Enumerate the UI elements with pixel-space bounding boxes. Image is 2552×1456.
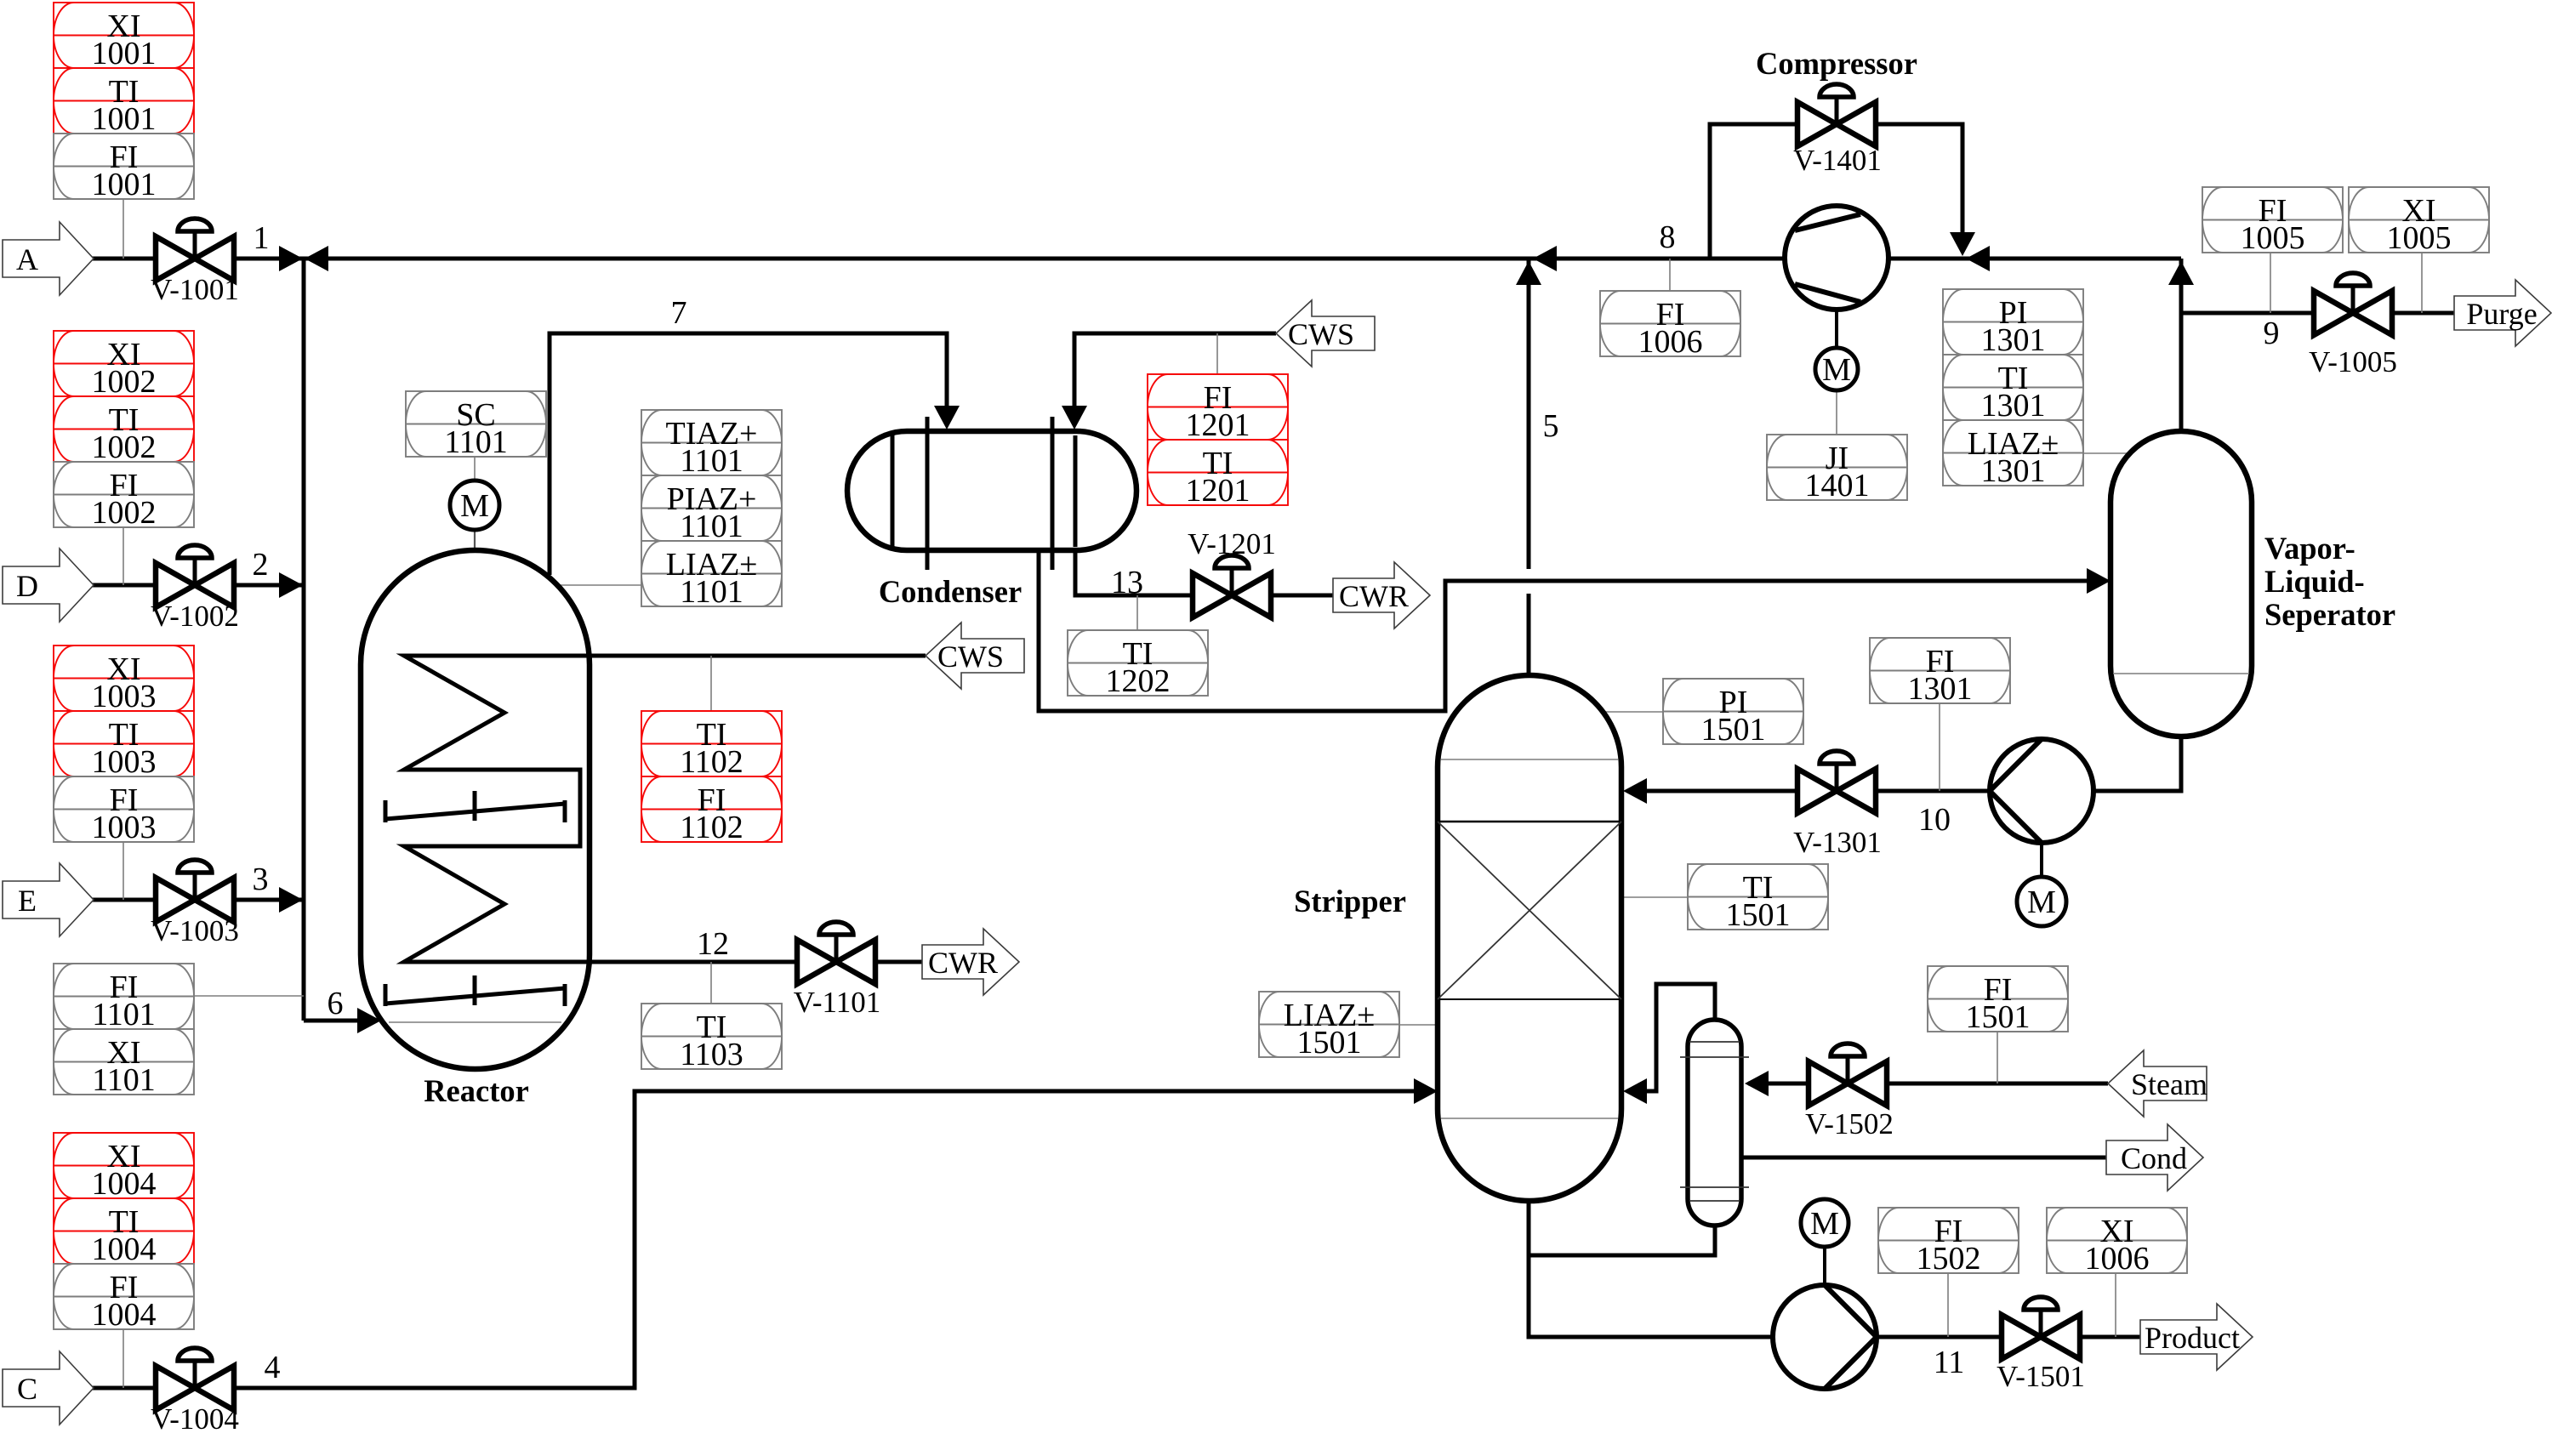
wire product pump to motor <box>1823 1247 1826 1285</box>
condenser vessel <box>847 431 1136 550</box>
svg-text:1003: 1003 <box>92 679 157 714</box>
instrument TI 1103 <box>641 1004 782 1072</box>
instrument XI 1003 <box>54 646 194 714</box>
svg-text:13: 13 <box>1111 565 1143 600</box>
stripper packing <box>1438 822 1621 999</box>
instrument FI 1006 <box>1600 291 1740 360</box>
instrument LIAZ± 1301 <box>1943 420 2083 489</box>
svg-text:1101: 1101 <box>680 509 743 544</box>
wire condenser liquid outlet to separator <box>1039 549 2094 711</box>
wire connector XI1005 to purge line <box>2421 253 2423 313</box>
wire reactor agitator shaft <box>474 529 476 626</box>
condenser left cap line <box>891 433 895 549</box>
valve V-1401 <box>1797 84 1876 146</box>
reboiler top tube sheet <box>1680 1056 1749 1058</box>
wire separator bottom to pump <box>2095 733 2181 791</box>
stripper vessel <box>1438 675 1621 1201</box>
instrument FI 1201 <box>1148 374 1288 443</box>
arrow steam into reboiler <box>1745 1071 1769 1096</box>
svg-text:Steam: Steam <box>2131 1067 2207 1101</box>
wire feed header vertical <box>302 259 306 1021</box>
svg-text:1006: 1006 <box>2085 1241 2150 1277</box>
valve V-1301 <box>1797 751 1876 813</box>
svg-text:1001: 1001 <box>92 167 157 202</box>
svg-text:1005: 1005 <box>2241 220 2305 256</box>
svg-text:5: 5 <box>1543 408 1559 444</box>
valve V-1004 <box>156 1348 234 1410</box>
instrument FI 1004 <box>54 1264 194 1333</box>
wire connector compressor M to JI1401 <box>1836 390 1837 435</box>
svg-text:V-1301: V-1301 <box>1793 826 1882 859</box>
wire connector FI1501 to steam line <box>1997 1032 1998 1083</box>
reactor upper agitator paddle <box>385 791 565 822</box>
wire connector LIAZ1301 to separator <box>2082 452 2132 454</box>
svg-text:1101: 1101 <box>92 1062 156 1098</box>
svg-text:1004: 1004 <box>92 1297 157 1333</box>
wire connector stack1004 to line C <box>122 1329 124 1388</box>
arrow bypass down into main line <box>1950 232 1975 256</box>
valve V-1005 <box>2314 273 2392 335</box>
valve V-1501 <box>2002 1297 2080 1359</box>
svg-text:Stripper: Stripper <box>1294 884 1406 919</box>
wire feed D line 2 <box>91 583 304 588</box>
separator level line <box>2113 673 2249 674</box>
wire feed C line 4 <box>91 1091 1431 1388</box>
stripper bottom level line <box>1441 1118 1618 1119</box>
svg-text:M: M <box>460 488 489 524</box>
reactor lower agitator paddle <box>385 975 565 1006</box>
svg-text:C: C <box>17 1372 37 1406</box>
svg-text:1501: 1501 <box>1701 712 1766 748</box>
svg-text:1502: 1502 <box>1917 1241 1981 1277</box>
wire connector PI1501 to stripper <box>1599 711 1663 713</box>
condenser right tube sheet <box>1051 417 1055 570</box>
instrument PI 1301 <box>1943 289 2083 358</box>
instrument LIAZ± 1101 <box>641 541 782 610</box>
arrow recycle on main line at bypass junction <box>1966 246 1990 271</box>
reactor liquid level line <box>389 1021 561 1023</box>
arrow line 4 into stripper <box>1414 1078 1438 1104</box>
wire connector stack1002 to line D <box>122 527 124 585</box>
svg-text:1002: 1002 <box>92 495 157 531</box>
instrument FI 1002 <box>54 462 194 531</box>
wire connector FI1006 to main line <box>1669 259 1671 291</box>
Steam arrow <box>2108 1050 2207 1117</box>
svg-text:1301: 1301 <box>1981 322 2046 358</box>
svg-text:E: E <box>18 884 37 918</box>
svg-text:1201: 1201 <box>1186 407 1250 443</box>
wire reboiler vapor return loop <box>1628 984 1715 1091</box>
svg-text:8: 8 <box>1660 219 1676 255</box>
valve V-1003 <box>156 860 234 922</box>
wire compressor to motor <box>1835 310 1838 349</box>
wire separator vapor riser line 8-9 <box>2179 259 2184 435</box>
svg-text:1501: 1501 <box>1297 1025 1362 1061</box>
wire connector SC1101 to motor <box>474 457 476 481</box>
svg-text:1201: 1201 <box>1186 473 1250 509</box>
svg-text:V-1101: V-1101 <box>794 986 880 1019</box>
svg-text:CWS: CWS <box>1288 317 1354 351</box>
svg-text:A: A <box>16 242 38 276</box>
svg-text:Cond: Cond <box>2121 1141 2187 1175</box>
instrument XI 1006 <box>2047 1208 2187 1277</box>
svg-text:Seperator: Seperator <box>2264 597 2395 632</box>
wire recycle pump to motor <box>2040 843 2043 877</box>
instrument FI 1501 <box>1928 966 2068 1035</box>
instrument TI 1201 <box>1148 440 1288 509</box>
valve V-1502 <box>1809 1044 1887 1106</box>
svg-text:6: 6 <box>328 986 344 1021</box>
wire product line 11 <box>1878 1335 2147 1339</box>
wire line 10 to stripper <box>1628 789 1988 793</box>
svg-text:1102: 1102 <box>680 744 743 780</box>
wire connector FI1301 to line 10 <box>1939 703 1940 791</box>
instrument TI 1001 <box>54 68 194 137</box>
wire connector TI1102 stack to coil line <box>710 656 712 711</box>
svg-text:3: 3 <box>253 862 269 897</box>
Purge arrow <box>2454 280 2551 346</box>
svg-text:1101: 1101 <box>680 574 743 610</box>
wire CWS line into reactor coil <box>411 654 926 658</box>
instrument XI 1002 <box>54 331 194 400</box>
reboiler bottom tube sheet <box>1680 1186 1749 1188</box>
motor M recycle pump <box>2017 877 2066 926</box>
instrument XI 1004 <box>54 1133 194 1202</box>
instrument FI 1101 <box>54 964 194 1032</box>
svg-text:1003: 1003 <box>92 810 157 845</box>
wire cond line from reboiler <box>1741 1156 2108 1160</box>
instrument PI 1501 <box>1663 679 1803 748</box>
svg-text:Liquid-: Liquid- <box>2264 564 2365 599</box>
condenser right cap line <box>1074 435 1078 547</box>
svg-text:1005: 1005 <box>2387 220 2452 256</box>
instrument SC 1101 <box>406 391 546 460</box>
svg-text:1501: 1501 <box>1726 897 1791 933</box>
svg-text:1102: 1102 <box>680 810 743 845</box>
arrow feed E into header <box>279 887 303 913</box>
svg-text:V-1002: V-1002 <box>151 600 239 633</box>
wire connector stack1001 to line A <box>122 199 124 259</box>
wire connector LIAZ1501 to stripper <box>1398 1024 1439 1026</box>
wire connector TIAZ1101 stack to reactor <box>392 584 641 586</box>
reactor coil serpentine <box>404 656 590 962</box>
svg-text:Vapor-: Vapor- <box>2264 531 2355 566</box>
svg-text:1101: 1101 <box>92 997 156 1032</box>
svg-text:Reactor: Reactor <box>424 1073 529 1108</box>
svg-text:12: 12 <box>697 926 729 962</box>
instrument FI 1502 <box>1878 1208 2019 1277</box>
feed arrow D <box>3 549 94 622</box>
svg-text:Purge: Purge <box>2466 297 2537 331</box>
Product arrow <box>2140 1304 2253 1370</box>
instrument LIAZ± 1501 <box>1259 992 1399 1061</box>
wire connector stack1101 to feed header <box>194 995 304 997</box>
wire line 7 reactor to condenser <box>550 333 947 575</box>
instrument TI 1202 <box>1068 630 1208 699</box>
svg-text:1001: 1001 <box>92 101 157 137</box>
svg-text:Compressor: Compressor <box>1756 46 1917 81</box>
wire line 12 coil to CWR <box>561 960 985 964</box>
feed arrow E <box>3 863 94 936</box>
svg-text:1: 1 <box>253 220 270 256</box>
svg-text:V-1501: V-1501 <box>1997 1360 2085 1393</box>
svg-text:2: 2 <box>253 547 269 583</box>
svg-text:1401: 1401 <box>1805 468 1870 503</box>
reactor vessel <box>361 550 590 1069</box>
svg-text:10: 10 <box>1918 802 1951 838</box>
arrow line 10 into stripper <box>1623 778 1647 804</box>
arrow CWS into reactor coil <box>406 643 430 668</box>
arrow CWS into condenser <box>1062 406 1087 429</box>
svg-text:V-1502: V-1502 <box>1805 1107 1894 1140</box>
arrow feed D into header <box>279 572 303 598</box>
svg-text:1002: 1002 <box>92 429 157 465</box>
instrument TI 1002 <box>54 396 194 465</box>
svg-text:1103: 1103 <box>680 1037 743 1072</box>
feed arrow C <box>3 1351 94 1425</box>
svg-text:CWR: CWR <box>928 946 998 980</box>
svg-text:V-1005: V-1005 <box>2309 345 2397 378</box>
wire purge line 9 <box>2181 311 2460 316</box>
instrument JI 1401 <box>1767 435 1907 503</box>
instrument FI 1102 <box>641 776 782 845</box>
wire compressor bypass <box>1710 124 1962 259</box>
svg-text:CWS: CWS <box>937 640 1004 674</box>
arrow recycle on main line at line5 junction <box>1533 246 1557 271</box>
svg-text:D: D <box>16 569 38 603</box>
compressor <box>1785 206 1888 310</box>
reboiler bottom cap line <box>1689 1200 1740 1202</box>
svg-text:1001: 1001 <box>92 36 157 71</box>
instrument TIAZ+ 1101 <box>641 410 782 479</box>
reboiler vessel <box>1688 1020 1741 1226</box>
condenser left tube sheet <box>926 417 930 570</box>
instrument FI 1003 <box>54 776 194 845</box>
svg-text:CWR: CWR <box>1339 579 1409 613</box>
arrow line 7 into condenser <box>934 406 960 429</box>
wire connector TI1103 to line 12 <box>710 962 712 1004</box>
arrow reboiler return into stripper <box>1623 1078 1647 1104</box>
wire connector TI1202 to line 13 <box>1136 595 1138 630</box>
CWR arrow line 13 <box>1333 562 1430 628</box>
instrument TI 1501 <box>1688 864 1828 933</box>
svg-text:1101: 1101 <box>444 424 508 460</box>
svg-text:1101: 1101 <box>680 443 743 479</box>
reboiler top cap line <box>1689 1041 1740 1043</box>
svg-text:9: 9 <box>2264 316 2280 351</box>
valve V-1002 <box>156 545 234 607</box>
svg-text:M: M <box>2027 884 2056 920</box>
svg-text:1202: 1202 <box>1106 663 1171 699</box>
svg-text:M: M <box>1822 352 1851 388</box>
instrument XI 1001 <box>54 3 194 71</box>
motor M product pump <box>1801 1199 1848 1247</box>
svg-text:Condenser: Condenser <box>879 574 1022 609</box>
recycle pump <box>1990 739 2093 843</box>
svg-text:1301: 1301 <box>1908 671 1973 707</box>
wire feed E line 3 <box>91 898 304 902</box>
svg-text:1002: 1002 <box>92 364 157 400</box>
instrument TI 1301 <box>1943 355 2083 424</box>
wire connector stack1003 to line E <box>122 842 124 900</box>
wire connector TI1501 to stripper <box>1623 896 1688 898</box>
svg-text:7: 7 <box>671 295 687 331</box>
wire steam line into reboiler <box>1748 1082 2108 1086</box>
svg-text:11: 11 <box>1934 1345 1965 1380</box>
arrow riser up into main line <box>2168 261 2194 285</box>
svg-text:4: 4 <box>265 1350 281 1385</box>
instrument FI 1001 <box>54 134 194 202</box>
svg-text:1003: 1003 <box>92 744 157 780</box>
feed arrow A <box>3 222 94 295</box>
valve V-1201 <box>1193 555 1271 617</box>
motor M reactor agitator <box>450 481 499 530</box>
svg-text:M: M <box>1810 1206 1839 1242</box>
wire connector XI1006 to product line <box>2115 1273 2116 1337</box>
instrument TI 1003 <box>54 711 194 780</box>
wire main recycle header line <box>304 257 2181 261</box>
instrument PIAZ+ 1101 <box>641 475 782 544</box>
svg-text:1501: 1501 <box>1966 999 2031 1035</box>
instrument FI 1301 <box>1870 638 2010 707</box>
valve V-1001 <box>156 219 234 281</box>
svg-text:1004: 1004 <box>92 1166 157 1202</box>
svg-text:1301: 1301 <box>1981 388 2046 424</box>
wire connector FI1201 stack to CWS line <box>1216 333 1218 374</box>
wire connector FI1005 to purge line <box>2270 253 2271 313</box>
wire connector FI1502 to product line <box>1947 1273 1949 1337</box>
motor M compressor <box>1815 348 1858 390</box>
wire CWS line into condenser <box>1074 333 1276 424</box>
instrument FI 1005 <box>2202 187 2343 256</box>
separator vessel <box>2111 431 2252 737</box>
CWS arrow to condenser <box>1276 300 1375 367</box>
valve V-1101 <box>797 922 875 984</box>
Cond arrow <box>2106 1124 2203 1191</box>
svg-text:1006: 1006 <box>1638 324 1703 360</box>
wire line 6 into reactor <box>304 1019 366 1023</box>
wire reboiler bottoms to stripper bottoms <box>1529 1222 1715 1255</box>
junction arrows at feed A node <box>279 246 303 271</box>
wire line 5 stripper overhead <box>1527 259 1531 680</box>
arrow into separator <box>2087 568 2111 594</box>
svg-text:V-1004: V-1004 <box>151 1402 239 1436</box>
wire stripper bottoms <box>1529 1197 1771 1337</box>
arrow line 5 up into main line <box>1516 261 1541 285</box>
CWS arrow to reactor <box>926 623 1024 689</box>
instrument XI 1101 <box>54 1029 194 1098</box>
svg-text:1004: 1004 <box>92 1231 157 1267</box>
svg-text:V-1003: V-1003 <box>151 914 239 947</box>
arrow line 6 into reactor <box>357 1008 381 1033</box>
svg-text:V-1201: V-1201 <box>1188 527 1276 560</box>
instrument TI 1102 <box>641 711 782 780</box>
svg-text:V-1001: V-1001 <box>151 273 239 306</box>
instrument TI 1004 <box>54 1198 194 1267</box>
svg-text:V-1401: V-1401 <box>1793 144 1882 177</box>
stripper top level line <box>1441 759 1618 760</box>
svg-text:Product: Product <box>2145 1321 2240 1355</box>
CWR arrow line 12 <box>922 929 1019 995</box>
product pump <box>1773 1285 1877 1389</box>
instrument XI 1005 <box>2349 187 2489 256</box>
wire line 13 condenser CW outlet <box>1075 544 1394 595</box>
wire feed A line 1 <box>91 257 304 261</box>
svg-text:1301: 1301 <box>1981 453 2046 489</box>
